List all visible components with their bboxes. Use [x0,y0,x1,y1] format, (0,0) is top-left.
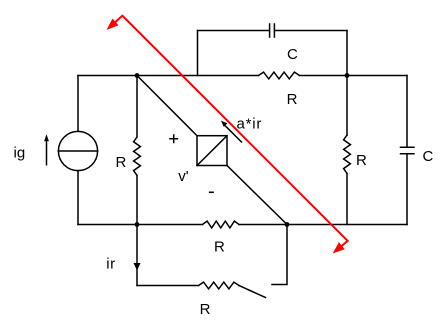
wire C-loop left vertical [197,31,199,76]
wire bottom rail left [78,224,203,226]
svg-text:ir: ir [106,255,115,272]
svg-text:R: R [214,239,225,256]
wire bottom rail right [239,224,407,226]
wire diagonal lower from dependent source [227,166,287,225]
wire ir branch vertical [136,225,138,286]
wire top rail y=75 left [78,75,259,77]
wire left rail bottom segment [77,171,79,225]
current source ig bar [58,150,97,152]
dependent source U1 internal diagonal [197,136,227,166]
label minus [209,191,214,193]
wire right R branch upper [346,76,348,136]
svg-text:R: R [287,91,298,108]
label plus [169,134,178,143]
resistor R3 bottom squiggle [203,221,240,228]
node D junction dot [285,222,290,227]
dependent source gain arrow a*ir [221,121,242,143]
wire right C branch lower [406,154,408,225]
capacitor C2 plates [401,147,415,153]
svg-text:R: R [116,154,127,171]
svg-text:C: C [423,148,434,165]
wire ir branch horizontal [137,285,199,287]
svg-text:a*ir: a*ir [237,116,263,133]
wire C-loop top right [274,30,347,32]
wire right C branch upper [406,76,408,148]
resistor R2 top squiggle [259,72,300,79]
current source ig arrow [44,134,49,165]
resistor R1 middle vertical upper lead [136,76,138,138]
wire left rail top segment [77,76,79,132]
resistor R1 middle squiggle [134,137,141,176]
resistor R5 branch squiggle [199,282,240,289]
dependent source U1 square [197,136,227,166]
resistor R4 right squiggle [344,135,351,174]
wire C-loop top left [198,30,270,32]
svg-text:R: R [356,152,367,169]
current source ig circle [58,131,97,170]
wire diagonal upper to dependent source [137,76,197,136]
svg-text:v': v' [178,168,189,185]
resistor R1 middle vertical lower lead [136,176,138,225]
wire right R branch lower [346,174,348,225]
node B junction dot [345,73,350,78]
node A junction dot [135,73,140,78]
capacitor C1 plates [270,24,275,37]
annotation red arrow line [107,16,348,254]
svg-text:R: R [200,301,211,318]
wire top rail y=75 right [300,75,408,77]
current ir arrowhead [134,263,141,271]
switch S1 right terminal hook [272,225,287,285]
svg-text:C: C [287,46,298,63]
node C junction dot [135,222,140,227]
wire C-loop right vertical [346,31,348,76]
svg-text:ig: ig [14,144,26,161]
switch S1 blade [239,286,266,298]
